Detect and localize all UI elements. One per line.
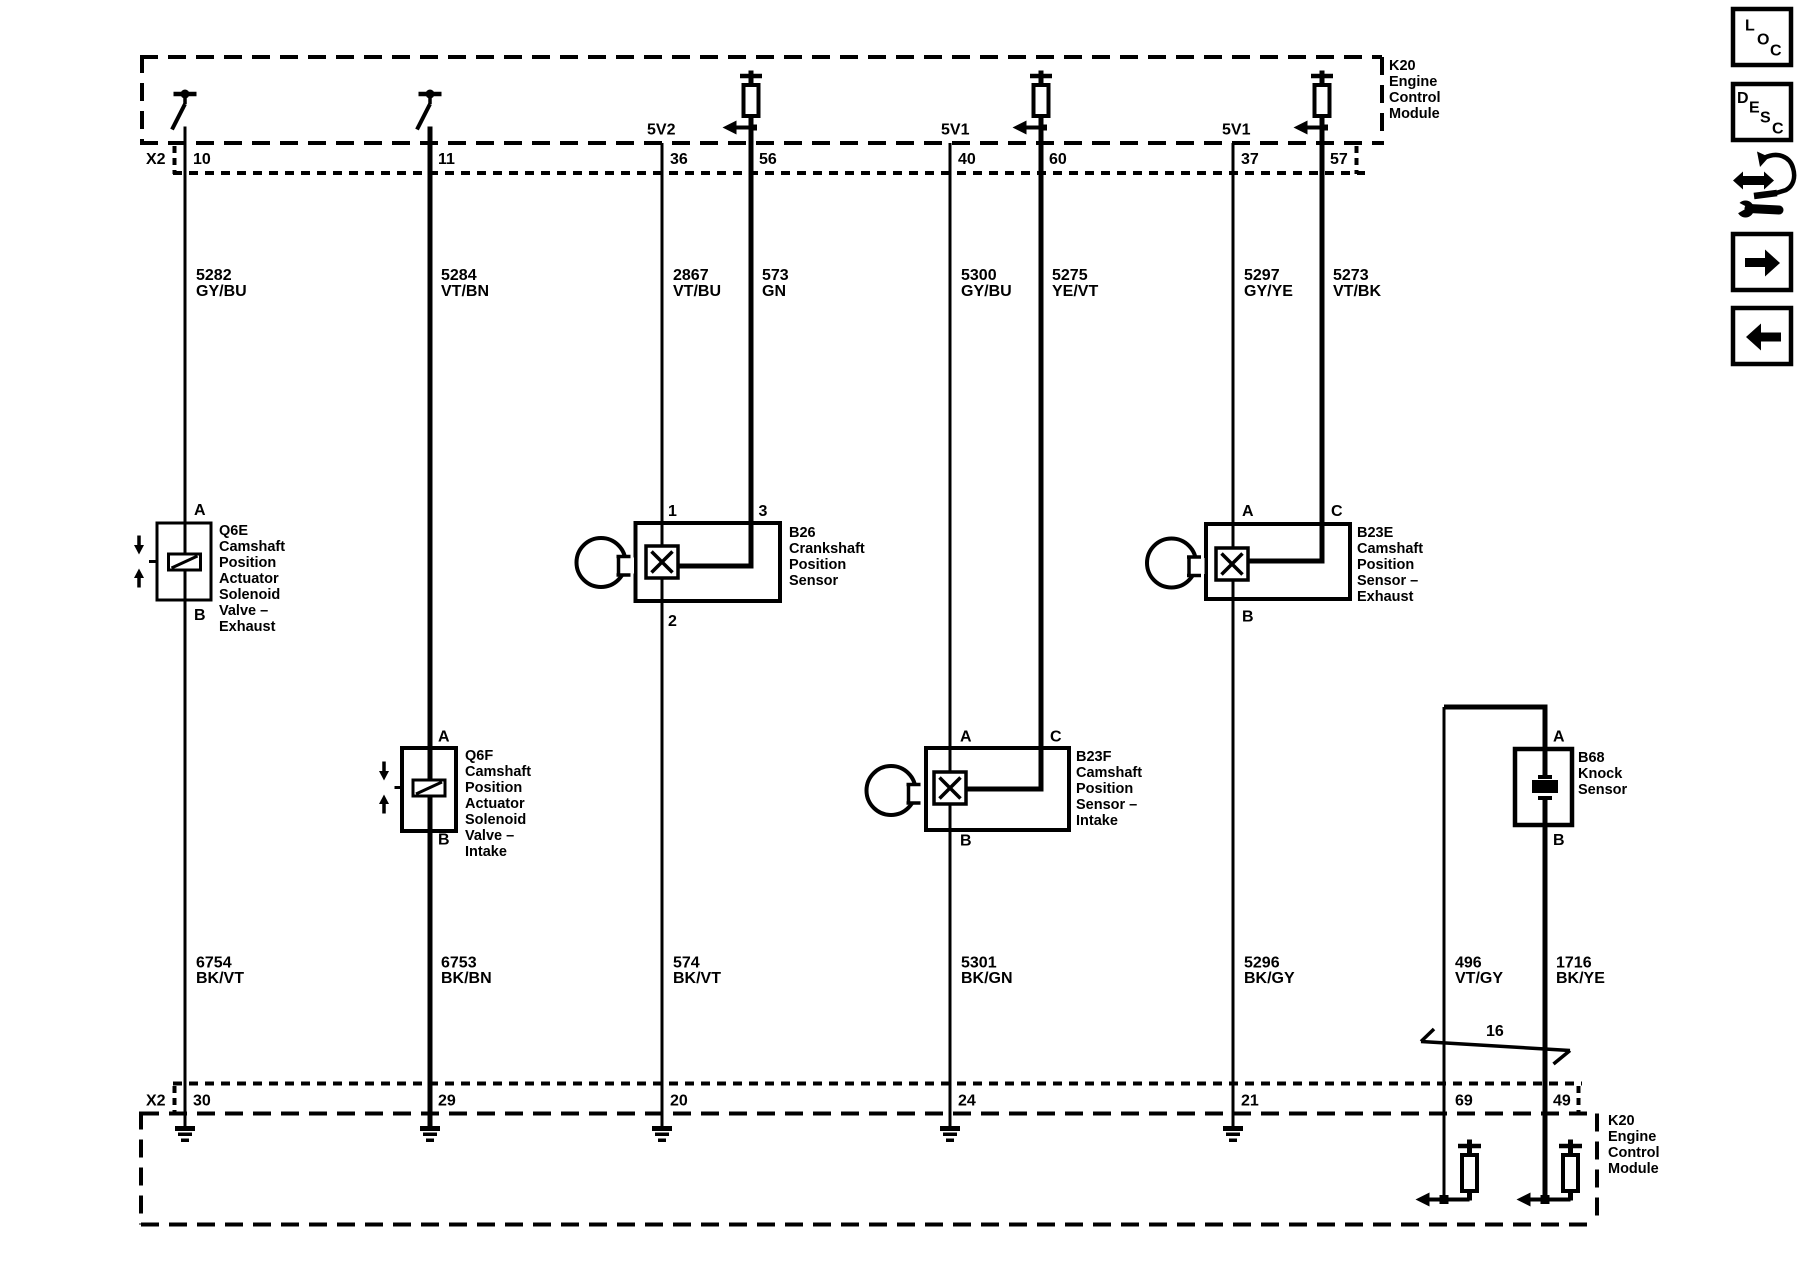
svg-text:BK/YE: BK/YE [1556,970,1605,987]
svg-text:Sensor: Sensor [1578,782,1628,798]
svg-text:Position: Position [789,557,846,573]
svg-text:VT/GY: VT/GY [1455,970,1503,987]
svg-text:Valve –: Valve – [465,828,514,844]
svg-text:Module: Module [1389,106,1440,122]
svg-text:2: 2 [668,613,677,630]
svg-text:GY/BU: GY/BU [196,283,247,300]
svg-text:L: L [1745,18,1755,35]
svg-text:1716: 1716 [1556,955,1592,972]
svg-text:Sensor –: Sensor – [1076,797,1137,813]
svg-text:Q6E: Q6E [219,523,248,539]
svg-text:30: 30 [193,1093,211,1110]
svg-text:Camshaft: Camshaft [465,764,531,780]
svg-text:BK/VT: BK/VT [673,970,721,987]
svg-text:5282: 5282 [196,267,232,284]
svg-text:BK/GY: BK/GY [1244,970,1295,987]
svg-text:Sensor: Sensor [789,573,839,589]
svg-text:B23F: B23F [1076,749,1112,765]
svg-text:E: E [1749,100,1760,117]
svg-text:Actuator: Actuator [219,571,279,587]
svg-text:496: 496 [1455,955,1482,972]
svg-text:Module: Module [1608,1161,1659,1177]
svg-text:BK/GN: BK/GN [961,970,1013,987]
svg-text:5297: 5297 [1244,267,1280,284]
svg-text:B: B [1553,832,1565,849]
svg-text:60: 60 [1049,151,1067,168]
svg-text:B68: B68 [1578,750,1605,766]
svg-text:6754: 6754 [196,955,232,972]
svg-text:Exhaust: Exhaust [219,619,276,635]
svg-text:Position: Position [219,555,276,571]
svg-text:Control: Control [1608,1145,1660,1161]
svg-text:40: 40 [958,151,976,168]
svg-text:Intake: Intake [1076,813,1118,829]
svg-text:Valve –: Valve – [219,603,268,619]
svg-text:BK/VT: BK/VT [196,970,244,987]
svg-text:5275: 5275 [1052,267,1088,284]
svg-text:5V1: 5V1 [941,122,970,139]
svg-text:56: 56 [759,151,777,168]
svg-text:B: B [438,832,450,849]
svg-text:2867: 2867 [673,267,709,284]
svg-text:Position: Position [465,780,522,796]
svg-text:Control: Control [1389,90,1441,106]
svg-text:3: 3 [759,503,768,520]
svg-text:69: 69 [1455,1093,1473,1110]
svg-text:11: 11 [438,151,455,168]
svg-text:1: 1 [668,503,677,520]
svg-text:36: 36 [670,151,688,168]
svg-text:GN: GN [762,283,786,300]
svg-text:Camshaft: Camshaft [1076,765,1142,781]
svg-text:A: A [1242,503,1254,520]
svg-text:Intake: Intake [465,844,507,860]
svg-text:574: 574 [673,955,700,972]
svg-text:Solenoid: Solenoid [465,812,526,828]
svg-text:Crankshaft: Crankshaft [789,541,865,557]
svg-text:5284: 5284 [441,267,477,284]
svg-text:B: B [194,607,206,624]
svg-text:Camshaft: Camshaft [219,539,285,555]
svg-text:C: C [1772,121,1784,138]
svg-text:A: A [194,502,206,519]
svg-text:573: 573 [762,267,789,284]
svg-text:A: A [438,729,450,746]
svg-text:16: 16 [1486,1023,1504,1040]
svg-text:BK/BN: BK/BN [441,970,492,987]
svg-text:A: A [960,729,972,746]
svg-text:VT/BN: VT/BN [441,283,489,300]
svg-text:24: 24 [958,1093,976,1110]
svg-text:5296: 5296 [1244,955,1280,972]
svg-text:Sensor –: Sensor – [1357,573,1418,589]
svg-text:Engine: Engine [1389,74,1437,90]
svg-text:B23E: B23E [1357,525,1394,541]
svg-text:A: A [1553,729,1565,746]
svg-text:29: 29 [438,1093,456,1110]
svg-text:57: 57 [1330,151,1348,168]
svg-text:5300: 5300 [961,267,997,284]
svg-text:O: O [1757,32,1769,49]
svg-text:X2: X2 [146,1093,166,1110]
svg-text:5V2: 5V2 [647,122,676,139]
svg-text:Q6F: Q6F [465,748,493,764]
svg-text:21: 21 [1241,1093,1259,1110]
svg-text:B26: B26 [789,525,816,541]
svg-text:GY/YE: GY/YE [1244,283,1293,300]
svg-text:10: 10 [193,151,211,168]
svg-text:Solenoid: Solenoid [219,587,280,603]
svg-text:B: B [960,833,972,850]
svg-text:X2: X2 [146,151,166,168]
svg-text:VT/BK: VT/BK [1333,283,1381,300]
svg-text:Engine: Engine [1608,1129,1656,1145]
svg-text:K20: K20 [1608,1113,1635,1129]
svg-text:C: C [1331,503,1343,520]
svg-text:Knock: Knock [1578,766,1623,782]
svg-text:20: 20 [670,1093,688,1110]
svg-text:49: 49 [1553,1093,1571,1110]
svg-text:5273: 5273 [1333,267,1369,284]
svg-text:GY/BU: GY/BU [961,283,1012,300]
svg-text:37: 37 [1241,151,1259,168]
svg-text:B: B [1242,609,1254,626]
svg-text:Actuator: Actuator [465,796,525,812]
svg-text:YE/VT: YE/VT [1052,283,1098,300]
svg-text:Camshaft: Camshaft [1357,541,1423,557]
svg-text:Position: Position [1076,781,1133,797]
svg-text:5V1: 5V1 [1222,122,1251,139]
svg-text:Exhaust: Exhaust [1357,589,1414,605]
svg-text:C: C [1770,43,1782,60]
svg-text:S: S [1760,110,1771,127]
svg-text:6753: 6753 [441,955,477,972]
svg-text:Position: Position [1357,557,1414,573]
svg-text:K20: K20 [1389,58,1416,74]
svg-text:C: C [1050,729,1062,746]
svg-text:VT/BU: VT/BU [673,283,721,300]
svg-text:5301: 5301 [961,955,997,972]
svg-text:D: D [1737,90,1749,107]
